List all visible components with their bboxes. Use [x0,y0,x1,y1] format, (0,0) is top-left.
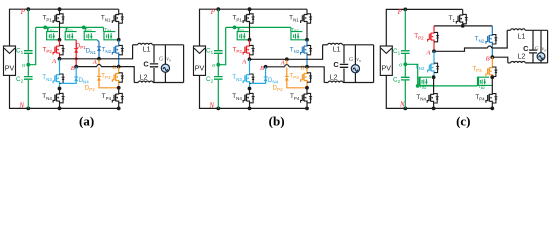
rail A [285,57,289,61]
PV source [194,46,206,75]
aux transistor TB4 [103,27,105,31]
wire B to filter [492,57,508,63]
capacitor C1 [214,51,223,54]
inductor L1 [511,29,526,30]
svg-text:B: B [486,55,490,62]
diode DP2 [98,59,100,76]
diode DN4 [265,67,267,82]
junction TP1 source [248,38,252,42]
svg-text:N: N [399,102,405,109]
grid voltage source vg [164,45,166,64]
junction bottom left leg [248,107,252,111]
svg-text:L1: L1 [143,47,151,54]
node B [264,65,268,69]
inductor L1 [323,44,328,46]
capacitor C1 [24,51,33,54]
diode DP1 [75,40,77,67]
node o [403,62,407,66]
transistor TN4 [433,77,435,92]
junction T1 source [461,24,465,28]
svg-text:o: o [212,62,215,69]
svg-text:L2: L2 [140,75,148,82]
svg-text:B: B [300,64,304,71]
rail B wire [76,66,97,68]
node B [490,55,494,59]
svg-text:L2: L2 [518,54,526,61]
transistor TN1 [304,9,307,40]
junction TP4 drain [117,86,121,90]
diode DN4 [75,67,77,82]
diode DN1 [97,40,99,59]
transistor T1 [460,9,463,26]
aux transistor TB2 [290,27,292,31]
svg-text:B: B [260,65,264,72]
aux transistor TB1 [237,27,239,31]
aux transistor TB1 [47,27,49,31]
wire node A to filter [60,45,133,59]
node P [216,7,220,11]
transistor TP1 [58,7,62,11]
aux green rail [418,85,478,87]
svg-text:PV: PV [382,64,392,73]
wire node A to filter [250,45,323,60]
junction B right [117,65,121,69]
svg-text:P: P [210,9,215,16]
wire node o to aux [405,64,417,86]
node N [403,107,407,111]
junction bottom right leg [305,107,309,111]
dc link green line [27,9,29,50]
wire right edge [183,45,185,83]
wire right edge [547,30,549,63]
node B [74,65,78,69]
svg-text:C: C [143,60,149,69]
svg-text:B: B [112,64,116,71]
capacitor C [532,30,534,50]
svg-text:PV: PV [195,64,205,73]
PV source [4,46,16,75]
node o [26,63,30,67]
crossover hump on rail B [97,64,100,67]
junction bottom right leg [117,107,121,111]
capacitor C1 [401,51,410,54]
wire A to filter [434,48,488,51]
junction bottom right leg [490,107,494,111]
subcircuit (c) outer frame [386,9,462,46]
grid voltage source vg [540,30,542,52]
junction TP4 drain [305,86,309,90]
junction TN1 source [305,38,309,42]
inductor L2 [324,82,328,84]
junction X1 [432,75,436,79]
crossover hump on rail B [285,64,288,67]
capacitor C2 [24,77,33,80]
svg-text:L2: L2 [330,75,338,82]
junction bottom left leg [58,107,62,111]
junction bottom left leg [432,107,436,111]
junction on A rail (red) [75,57,78,60]
aux transistor TB1 [419,77,421,86]
dc link green line [404,9,406,50]
transistor TP1 [248,7,252,11]
transistor TP3 [306,67,308,72]
svg-text:C: C [333,60,339,69]
transistor TN4 [246,89,249,109]
rail B wire [266,66,285,68]
node A [248,57,252,61]
grid voltage source vg [354,45,356,65]
node o [216,63,220,67]
wire right edge [373,45,375,83]
inductor L2 [508,62,511,64]
transistor TP4 [116,88,119,109]
svg-text:o: o [399,61,402,68]
inductor L1 [133,44,138,46]
aux green bus [36,26,104,28]
green junction [416,84,420,88]
subcircuit (a) outer frame: top rail, left edge, bottom rail [10,9,60,46]
aux green bus [226,26,291,28]
capacitor C [153,45,155,63]
svg-text:L1: L1 [518,34,526,41]
aux transistor TB3 [84,27,86,31]
junction TN4 drain [58,87,62,91]
PV source [380,46,392,75]
svg-text:vo: vo [166,56,171,62]
junction TP1 source [58,38,62,42]
node P [26,7,30,11]
transistor TN2 [304,40,307,67]
node A [58,57,62,61]
transistor TN3 [249,59,251,73]
capacitor C2 [214,77,223,80]
svg-text:N: N [19,103,25,110]
transistor TP2 [433,26,435,31]
transistor TN2 [116,40,119,67]
svg-text:PV: PV [5,64,15,73]
wire node B to filter [307,67,324,83]
aux transistor TB2 [65,27,67,31]
svg-text:(b): (b) [269,114,285,129]
svg-text:(c): (c) [456,114,470,129]
node A [432,49,436,53]
svg-text:P: P [397,9,402,16]
junction TN4 drain [248,87,252,91]
transistor TP2 [56,40,59,59]
transistor TP2 [246,40,249,60]
junction X2 [490,75,494,79]
transistor TN1 [116,9,119,40]
svg-text:o: o [22,62,25,69]
capacitor C [343,45,345,64]
wire node B to filter [119,67,135,83]
node P [403,7,407,11]
svg-text:vo: vo [356,57,361,63]
capacitor C2 [401,77,410,80]
wire node o to aux bus [218,27,225,64]
second rail [434,25,492,27]
aux transistor TB2 [478,77,480,86]
svg-text:B: B [71,65,75,72]
transistor TN3 [59,59,61,73]
transistor TN2 [491,26,493,34]
transistor TP3 [118,67,120,72]
junction TN1 source [117,38,121,42]
svg-text:vo: vo [542,46,547,52]
inductor L2 [134,82,138,84]
svg-text:P: P [20,9,25,16]
junction B right [305,65,309,69]
svg-text:(a): (a) [79,114,94,129]
svg-text:C: C [523,44,529,53]
transistor TP3 [491,57,493,66]
node N [26,107,30,111]
wire node o to aux bus [28,27,35,64]
transistor TN3 [433,51,435,62]
rail A [97,57,101,61]
transistor TN4 [56,89,59,109]
diode DP2 [286,59,288,76]
transistor TP4 [304,88,307,109]
transistor TP4 [491,77,493,92]
dc link green line [217,9,219,50]
subcircuit (b) outer frame: top rail, left edge, bottom rail [200,9,250,46]
node N [216,107,220,111]
svg-text:N: N [209,103,215,110]
svg-text:L1: L1 [333,47,341,54]
